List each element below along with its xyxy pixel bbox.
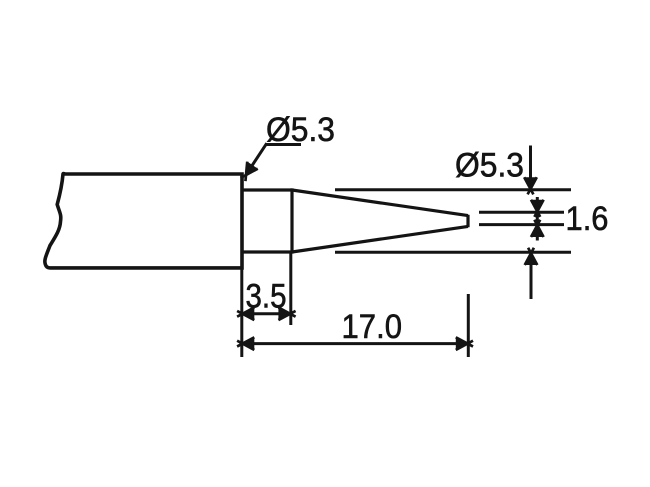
shoulder cylinder bottom line xyxy=(242,250,292,253)
top extension line (diameter 5.3) xyxy=(335,188,571,191)
extension line at shoulder end (x=291) xyxy=(289,254,292,326)
cone tip flat xyxy=(466,215,469,227)
extension line at tip (x=468) xyxy=(467,294,470,357)
arrowhead: up at 1.6 bottom line xyxy=(531,220,544,237)
svg-text:1.6: 1.6 xyxy=(566,200,609,238)
leader line for left diameter label xyxy=(248,143,302,172)
tip width 1.6 top line xyxy=(479,211,564,214)
1.6 dim: middle shaft xyxy=(536,197,539,241)
svg-text:Ø5.3: Ø5.3 xyxy=(266,111,335,149)
barrel body outline (iron barrel with break line) xyxy=(45,174,242,268)
cone top edge xyxy=(292,190,468,216)
arrowhead: right end of 3.5 dim xyxy=(278,308,295,321)
cone bottom edge xyxy=(292,226,468,252)
extension line at barrel end (x=242) xyxy=(240,270,243,358)
arrowhead: left end of 17.0 dim xyxy=(237,337,254,350)
svg-text:Ø5.3: Ø5.3 xyxy=(455,147,524,185)
arrowhead: right end of 17.0 dim xyxy=(456,337,473,350)
tip width 1.6 bottom line xyxy=(479,223,564,226)
arrowhead: down at top extension line (dia 5.3) xyxy=(524,177,537,194)
right dim: upper shaft xyxy=(529,146,532,189)
17.0 dimension line xyxy=(242,342,468,345)
3.5 dimension line xyxy=(242,312,291,315)
shoulder cylinder end vertical xyxy=(290,188,293,253)
bottom extension line (diameter 5.3) xyxy=(335,251,571,254)
arrowhead: left end of 3.5 dim xyxy=(237,308,254,321)
arrowhead: up at bottom extension line xyxy=(525,248,538,265)
svg-text:3.5: 3.5 xyxy=(246,278,287,316)
arrowhead: down at 1.6 top line xyxy=(531,200,544,217)
svg-text:17.0: 17.0 xyxy=(342,308,403,346)
shoulder cylinder top line xyxy=(242,188,292,191)
arrowhead: leader arrow at barrel corner xyxy=(238,162,258,183)
bottom extension up arrow shaft xyxy=(530,253,533,300)
